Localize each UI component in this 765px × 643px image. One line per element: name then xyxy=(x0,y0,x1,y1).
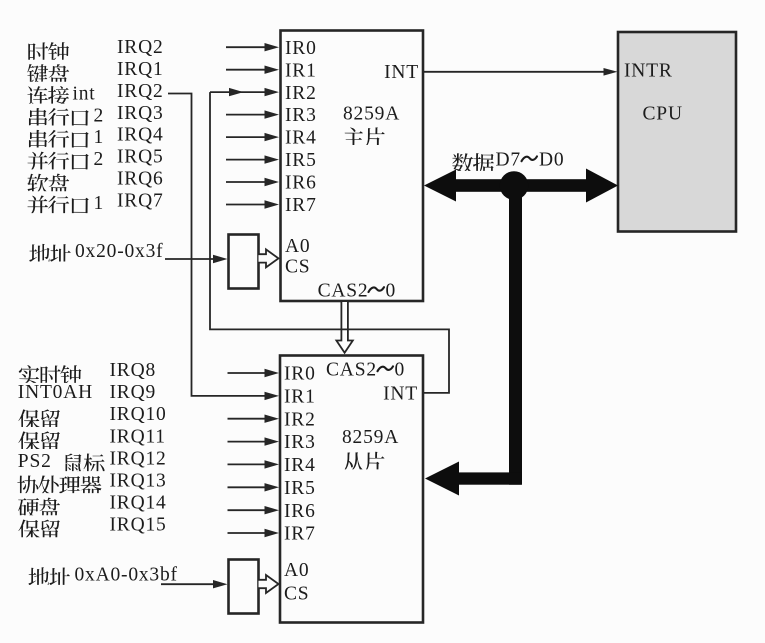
svg-text:int: int xyxy=(73,83,96,104)
svg-text:D7: D7 xyxy=(496,149,521,170)
svg-text:IRQ9: IRQ9 xyxy=(110,382,157,403)
svg-text:2: 2 xyxy=(94,149,105,170)
svg-text:CPU: CPU xyxy=(643,104,683,125)
svg-text:0xA0-0x3bf: 0xA0-0x3bf xyxy=(75,564,178,585)
svg-text:IR0: IR0 xyxy=(285,38,317,59)
svg-text:INT0AH: INT0AH xyxy=(18,382,93,403)
svg-text:0x20-0x3f: 0x20-0x3f xyxy=(75,241,163,262)
svg-text:CS: CS xyxy=(285,257,310,278)
svg-text:CS: CS xyxy=(284,584,309,605)
svg-text:1: 1 xyxy=(94,127,105,148)
svg-text:A0: A0 xyxy=(284,560,309,581)
svg-text:IRQ12: IRQ12 xyxy=(110,448,167,469)
svg-text:0: 0 xyxy=(386,280,397,301)
svg-text:PS2: PS2 xyxy=(18,451,52,472)
svg-text:IRQ6: IRQ6 xyxy=(117,169,164,190)
svg-text:IR1: IR1 xyxy=(285,60,317,81)
svg-text:IRQ1: IRQ1 xyxy=(117,59,164,80)
svg-text:IRQ2: IRQ2 xyxy=(117,37,164,58)
svg-text:1: 1 xyxy=(94,193,105,214)
svg-text:IRQ3: IRQ3 xyxy=(117,103,164,124)
svg-text:CAS2: CAS2 xyxy=(318,280,369,301)
svg-text:IRQ13: IRQ13 xyxy=(110,470,167,491)
svg-text:IRQ14: IRQ14 xyxy=(110,493,167,514)
svg-text:2: 2 xyxy=(94,105,105,126)
svg-text:IRQ8: IRQ8 xyxy=(110,360,157,381)
svg-text:IR2: IR2 xyxy=(284,409,316,430)
svg-text:IR0: IR0 xyxy=(284,364,316,385)
svg-text:IR7: IR7 xyxy=(285,195,317,216)
svg-text:IRQ2: IRQ2 xyxy=(117,81,164,102)
svg-text:IR1: IR1 xyxy=(284,387,316,408)
svg-text:8259A: 8259A xyxy=(343,104,400,125)
svg-text:IRQ4: IRQ4 xyxy=(117,125,164,146)
svg-text:IR3: IR3 xyxy=(284,432,316,453)
svg-text:INTR: INTR xyxy=(624,61,673,82)
svg-text:D0: D0 xyxy=(539,149,564,170)
svg-text:CAS2: CAS2 xyxy=(326,360,377,381)
svg-text:IR3: IR3 xyxy=(285,105,317,126)
svg-text:INT: INT xyxy=(383,383,418,404)
svg-text:IR6: IR6 xyxy=(284,501,316,522)
svg-text:IRQ15: IRQ15 xyxy=(110,515,167,536)
svg-text:IRQ5: IRQ5 xyxy=(117,147,164,168)
svg-text:8259A: 8259A xyxy=(342,427,399,448)
svg-text:INT: INT xyxy=(384,62,419,83)
svg-text:IRQ7: IRQ7 xyxy=(117,190,164,211)
svg-text:IR4: IR4 xyxy=(284,455,316,476)
svg-text:0: 0 xyxy=(395,360,406,381)
svg-text:IRQ10: IRQ10 xyxy=(110,404,167,425)
svg-text:IR5: IR5 xyxy=(285,150,317,171)
svg-text:IRQ11: IRQ11 xyxy=(110,426,166,447)
svg-text:A0: A0 xyxy=(285,236,310,257)
svg-text:IR6: IR6 xyxy=(285,173,317,194)
svg-text:IR2: IR2 xyxy=(285,83,317,104)
svg-text:IR7: IR7 xyxy=(284,524,316,545)
svg-text:IR5: IR5 xyxy=(284,478,316,499)
svg-text:IR4: IR4 xyxy=(285,128,317,149)
